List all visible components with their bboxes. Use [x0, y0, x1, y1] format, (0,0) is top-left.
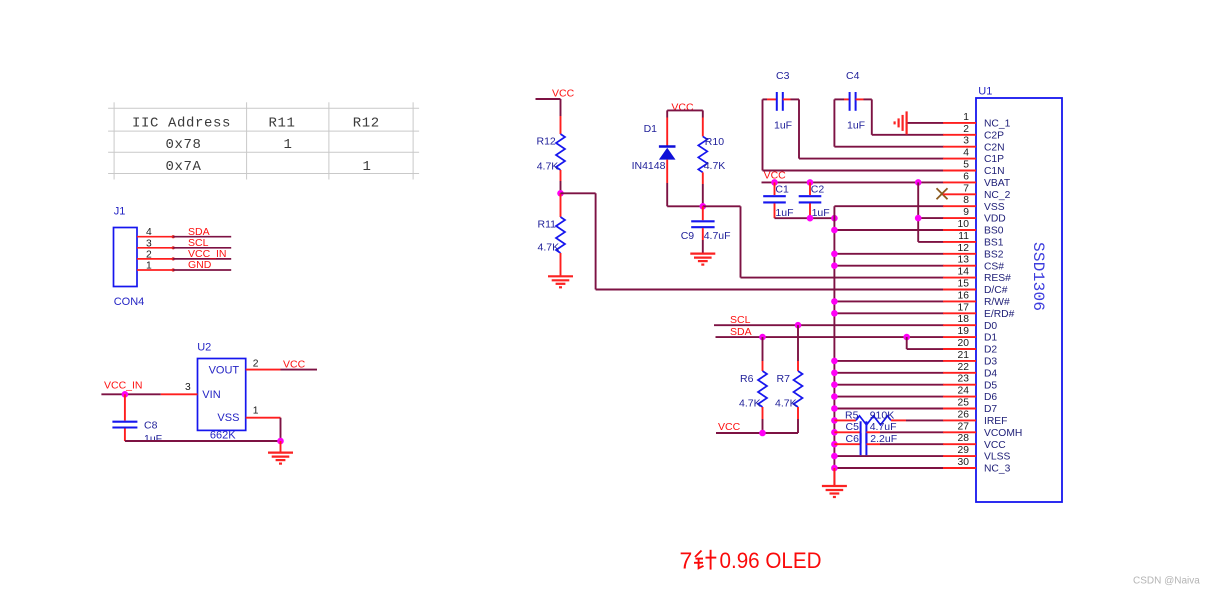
table row 0x78	[165, 137, 292, 153]
U1 pin 1 (NC_1)	[943, 112, 1011, 130]
U1 pin 17 (E/RD#)	[943, 302, 1015, 320]
node VDD riser top	[915, 179, 922, 186]
svg-text:C2: C2	[811, 183, 825, 195]
svg-text:C8: C8	[144, 419, 158, 431]
resistor R10	[698, 136, 707, 172]
svg-text:VCOMH: VCOMH	[984, 428, 1022, 439]
svg-text:25: 25	[958, 398, 970, 409]
capacitor C5 (4.7uF) on VCOMH pin27	[834, 421, 943, 443]
svg-text:14: 14	[958, 267, 970, 278]
ground (R11)	[548, 275, 573, 277]
svg-text:J1: J1	[114, 205, 126, 217]
svg-text:SSD1306: SSD1306	[1029, 242, 1047, 311]
regulator U2 body	[198, 359, 246, 431]
U1 pin 22 (D4)	[943, 362, 997, 380]
svg-text:VSS: VSS	[984, 202, 1005, 213]
svg-text:D6: D6	[984, 392, 997, 403]
svg-text:1: 1	[253, 405, 259, 416]
svg-text:0x7A: 0x7A	[165, 159, 201, 175]
table row 0x7A	[165, 159, 371, 175]
svg-text:2: 2	[963, 124, 969, 135]
U1 pin 5 (C1N)	[943, 160, 1005, 178]
svg-text:4: 4	[146, 227, 152, 238]
svg-text:R11: R11	[538, 219, 557, 231]
wire D1 anode to C9 node	[667, 205, 703, 207]
svg-text:C1N: C1N	[984, 166, 1005, 177]
wire divider node to D/C# pin15: right, down, right	[561, 193, 944, 289]
ground (C9)	[690, 253, 715, 255]
wire SDA to R6	[762, 337, 764, 371]
wire R7 bottom to VCC rail	[763, 407, 799, 433]
svg-text:VCC: VCC	[718, 421, 741, 433]
U1 pin 8 (VSS)	[943, 195, 1005, 213]
U1 pin 14 (RES#)	[943, 267, 1011, 285]
J1 pin 2 (VCC_IN)	[137, 248, 231, 260]
svg-text:910K: 910K	[870, 410, 895, 422]
node SDA branch to D2	[903, 334, 910, 341]
node C2 bottom	[807, 215, 814, 222]
wire node to RES# pin14: right, down, right	[703, 206, 944, 277]
U1 pin 23 (D5)	[943, 374, 997, 392]
U1 pin 29 (VLSS)	[943, 445, 1010, 463]
svg-text:U2: U2	[197, 342, 211, 354]
svg-text:9: 9	[963, 207, 969, 218]
wire R10 bottom	[702, 172, 704, 206]
U1 pin 11 (BS1)	[943, 231, 1004, 249]
node D1/R10/C9	[700, 203, 707, 210]
capacitor C9	[691, 206, 714, 253]
wire SCL to R7	[797, 325, 799, 371]
U1 part name SSD1306 (vertical)	[1029, 242, 1047, 311]
resistor R7	[794, 371, 803, 407]
wire VCC to D1 cathode	[666, 110, 668, 145]
wire C1/C2 bottoms to bus	[775, 217, 835, 219]
wire C3 right to C1P pin4	[791, 99, 944, 158]
svg-text:NC_3: NC_3	[984, 464, 1011, 475]
svg-text:1: 1	[146, 261, 152, 272]
svg-text:22: 22	[958, 362, 970, 373]
svg-text:R10: R10	[705, 136, 724, 148]
U2 pin 1 VSS wire	[246, 405, 281, 441]
svg-text:E/RD#: E/RD#	[984, 309, 1015, 320]
wire R12 bottom	[560, 170, 562, 193]
svg-text:16: 16	[958, 290, 970, 301]
node VCC_IN / C8 junction	[122, 391, 129, 398]
IC U1 SSD1306 body	[976, 98, 1062, 502]
node bus / pin 21	[831, 358, 838, 365]
node C1 top	[771, 179, 778, 186]
svg-text:GND: GND	[188, 259, 212, 271]
table header row: IIC Address / R11 / R12	[132, 115, 380, 131]
resistor R11	[556, 217, 565, 253]
wire bus to pin 25	[834, 408, 943, 410]
svg-text:D1: D1	[644, 123, 658, 135]
svg-text:BS1: BS1	[984, 238, 1004, 249]
U1 pin 30 (NC_3)	[943, 457, 1011, 475]
wire VCC rail to VBAT pin6	[762, 181, 944, 183]
wire C3 left to C1N pin5	[763, 99, 944, 170]
svg-text:4.7K: 4.7K	[775, 398, 797, 410]
svg-text:0.96 OLED: 0.96 OLED	[720, 548, 822, 573]
svg-text:VBAT: VBAT	[984, 178, 1011, 189]
capacitor C4	[844, 92, 864, 111]
svg-text:R5: R5	[845, 410, 859, 422]
svg-text:1uF: 1uF	[847, 120, 865, 132]
node bus / pin 22	[831, 370, 838, 377]
U1 pin 13 (CS#)	[943, 255, 1004, 273]
wire bus to pin 29	[834, 455, 943, 457]
svg-text:26: 26	[958, 409, 970, 420]
svg-text:NC_1: NC_1	[984, 119, 1011, 130]
svg-text:C5: C5	[846, 421, 860, 433]
svg-text:23: 23	[958, 374, 970, 385]
U1 pin 21 (D3)	[943, 350, 997, 368]
svg-text:4.7uF: 4.7uF	[870, 421, 897, 433]
svg-text:7: 7	[963, 183, 969, 194]
U1 pin 15 (D/C#)	[943, 279, 1008, 297]
wire VSS pin8 to bus top	[834, 205, 943, 207]
wire VCC to R12	[560, 99, 562, 134]
svg-text:C4: C4	[846, 70, 860, 82]
svg-text:VCC_IN: VCC_IN	[104, 380, 143, 392]
diode D1 (IN4148)	[659, 147, 676, 160]
svg-text:R11: R11	[268, 115, 295, 131]
U1 pin 6 (VBAT)	[943, 171, 1011, 189]
U1 pin 3 (C2N)	[943, 136, 1005, 154]
svg-text:1uF: 1uF	[774, 120, 792, 132]
svg-text:6: 6	[963, 171, 969, 182]
U1 pin 28 (VCC)	[943, 433, 1006, 451]
riser wire VCC to VDD pin9 and BS1 pin11	[918, 182, 943, 242]
ground (U2)	[268, 441, 293, 464]
U1 pin 10 (BS0)	[943, 219, 1004, 237]
svg-text:IIC Address: IIC Address	[132, 115, 231, 131]
wire C8 to ground rail	[125, 440, 281, 442]
resistor R12	[556, 134, 565, 170]
svg-text:VLSS: VLSS	[984, 452, 1010, 463]
node SCL / R7	[795, 322, 802, 329]
svg-text:D1: D1	[984, 333, 997, 344]
svg-text:30: 30	[958, 457, 970, 468]
node bus / pin 13	[831, 262, 838, 269]
U1 pin 20 (D2)	[943, 338, 997, 356]
wire R11 to ground	[560, 253, 562, 276]
svg-text:R12: R12	[353, 115, 380, 131]
svg-text:4.7uF: 4.7uF	[704, 230, 731, 242]
U1 pin 16 (R/W#)	[943, 290, 1010, 308]
svg-text:7: 7	[680, 548, 693, 574]
U2 pin 2 VOUT wire to VCC	[246, 358, 317, 369]
wire D1 anode down	[666, 160, 668, 207]
wire VCC to R10	[702, 110, 704, 136]
earth symbol on NC_1 pin1	[895, 111, 944, 134]
node C2 top	[807, 179, 814, 186]
svg-text:R7: R7	[777, 373, 791, 385]
node R6 bottom / VCC	[759, 430, 766, 437]
svg-text:1uF: 1uF	[144, 433, 162, 445]
svg-text:3: 3	[146, 238, 152, 249]
wire bus to pin 23	[834, 384, 943, 386]
svg-text:4.7K: 4.7K	[538, 242, 560, 254]
node bus / pin 10	[831, 227, 838, 234]
wire bus to pin 21	[834, 360, 943, 362]
node bus / pin 30	[831, 465, 838, 472]
node cap rail / bus	[831, 215, 838, 222]
svg-text:BS0: BS0	[984, 226, 1004, 237]
svg-text:IREF: IREF	[984, 416, 1007, 427]
svg-text:3: 3	[185, 382, 191, 393]
svg-text:CS#: CS#	[984, 261, 1004, 272]
svg-text:C3: C3	[776, 70, 790, 82]
svg-text:D5: D5	[984, 380, 997, 391]
svg-text:D3: D3	[984, 357, 997, 368]
wire C4 left to C2N pin3	[834, 99, 943, 146]
svg-text:12: 12	[958, 243, 970, 254]
node bus / pin 28	[831, 441, 838, 448]
svg-text:D7: D7	[984, 404, 997, 415]
svg-text:2: 2	[146, 249, 152, 260]
svg-text:2: 2	[253, 358, 259, 369]
svg-text:13: 13	[958, 255, 970, 266]
svg-text:VDD: VDD	[984, 214, 1006, 225]
svg-text:NC_2: NC_2	[984, 190, 1011, 201]
svg-text:10: 10	[958, 219, 970, 230]
svg-text:17: 17	[958, 302, 970, 313]
J1 pin 3 (SCL)	[137, 237, 231, 249]
node bus / pin 25	[831, 405, 838, 412]
svg-text:R6: R6	[740, 373, 754, 385]
wire SCL to D0 pin18	[714, 324, 944, 326]
U1 pin 26 (IREF)	[943, 409, 1007, 427]
capacitor C2	[799, 182, 822, 218]
svg-text:C1: C1	[775, 183, 789, 195]
svg-text:BS2: BS2	[984, 249, 1004, 260]
svg-text:U1: U1	[978, 85, 992, 97]
svg-text:VCC: VCC	[984, 440, 1006, 451]
svg-text:D2: D2	[984, 345, 997, 356]
U1 pin 25 (D7)	[943, 398, 997, 416]
node bus / pin 17	[831, 310, 838, 317]
wire bus to pin 12	[834, 253, 943, 255]
node VDD riser / pin9	[915, 215, 922, 222]
power port VCC (R12 top)	[536, 88, 575, 100]
wire C4 right to C2P pin2	[864, 99, 944, 134]
node bus / pin 16	[831, 298, 838, 305]
wire R6 bottom to VCC rail	[762, 407, 764, 433]
svg-text:1: 1	[362, 159, 371, 175]
svg-text:662K: 662K	[210, 430, 236, 442]
svg-text:C9: C9	[681, 230, 695, 242]
U2 pin 3 VIN wire	[101, 382, 197, 394]
svg-text:D4: D4	[984, 368, 997, 379]
svg-text:C2N: C2N	[984, 142, 1005, 153]
svg-text:18: 18	[958, 314, 970, 325]
svg-text:C6: C6	[846, 433, 860, 445]
svg-text:VOUT: VOUT	[209, 364, 240, 376]
svg-text:VSS: VSS	[217, 412, 239, 424]
svg-text:27: 27	[958, 421, 970, 432]
wire bus to pin 17	[834, 312, 943, 314]
svg-text:5: 5	[963, 160, 969, 171]
svg-text:1: 1	[283, 137, 292, 153]
svg-text:4.7K: 4.7K	[537, 161, 559, 173]
wire SDA branch to D2 pin20	[907, 337, 944, 349]
IIC address table grid	[108, 102, 419, 179]
svg-text:2.2uF: 2.2uF	[870, 433, 897, 445]
U1 pin 24 (D6)	[943, 386, 997, 404]
svg-text:RES#: RES#	[984, 273, 1011, 284]
svg-text:24: 24	[958, 386, 970, 397]
wire R11 top	[560, 193, 562, 217]
wire bus to pin 10	[834, 229, 943, 231]
wire bus to pin 13	[834, 265, 943, 267]
U1 pin 4 (C1P)	[943, 148, 1004, 166]
capacitor C3	[763, 92, 791, 111]
svg-text:VCC: VCC	[283, 358, 306, 370]
resistor R6	[758, 371, 767, 407]
svg-text:C2P: C2P	[984, 130, 1004, 141]
svg-text:CSDN @Naiva: CSDN @Naiva	[1133, 576, 1200, 587]
capacitor C6 (2.2uF) on VCC pin28	[834, 433, 943, 455]
svg-text:4.7K: 4.7K	[704, 160, 726, 172]
node bus / pin 12	[831, 251, 838, 258]
GND bus vertical	[833, 206, 835, 486]
svg-text:21: 21	[958, 350, 970, 361]
svg-text:SDA: SDA	[730, 326, 752, 338]
node bus / pin 23	[831, 381, 838, 388]
svg-text:VCC: VCC	[552, 88, 575, 100]
U1 pin 18 (D0)	[943, 314, 997, 332]
svg-text:VCC: VCC	[671, 102, 694, 114]
svg-text:1: 1	[963, 112, 969, 123]
wire SDA to D1 pin19	[716, 336, 944, 338]
U1 pin 19 (D1)	[943, 326, 997, 344]
node bus / pin 26	[831, 417, 838, 424]
svg-text:15: 15	[958, 279, 970, 290]
connector J1 (CON4) body	[114, 228, 138, 287]
svg-text:8: 8	[963, 195, 969, 206]
wire bus to pin 22	[834, 372, 943, 374]
no-connect X on NC_2 pin7	[937, 188, 948, 199]
svg-text:3: 3	[963, 136, 969, 147]
J1 pin 4 (SDA)	[137, 226, 231, 238]
node SDA / R6	[759, 334, 766, 341]
node R12/R11 junction	[557, 190, 564, 197]
svg-text:19: 19	[958, 326, 970, 337]
wire bus to pin 24	[834, 396, 943, 398]
node bus / pin 29	[831, 453, 838, 460]
U1 pin 12 (BS2)	[943, 243, 1004, 261]
wire bus to pin 16	[834, 300, 943, 302]
wire bus to pin 30	[834, 467, 943, 469]
svg-text:CON4: CON4	[114, 296, 145, 308]
U1 pin 27 (VCOMH)	[943, 421, 1022, 439]
U1 pin 7 (NC_2)	[943, 183, 1011, 201]
svg-text:4: 4	[963, 148, 969, 159]
svg-text:4.7K: 4.7K	[739, 398, 761, 410]
svg-text:0x78: 0x78	[165, 137, 201, 153]
svg-text:D/C#: D/C#	[984, 285, 1008, 296]
svg-text:IN4148: IN4148	[632, 160, 666, 172]
svg-text:1uF: 1uF	[775, 207, 793, 219]
power port VCC (D1/R10)	[667, 102, 703, 114]
svg-text:1uF: 1uF	[812, 207, 830, 219]
svg-text:28: 28	[958, 433, 970, 444]
power port VCC (R6/R7)	[716, 421, 763, 433]
node bus / pin 27	[831, 429, 838, 436]
capacitor C8	[112, 394, 137, 441]
node bus / pin 24	[831, 393, 838, 400]
svg-text:R12: R12	[537, 136, 556, 148]
U1 pin 2 (C2P)	[943, 124, 1004, 142]
svg-text:R/W#: R/W#	[984, 297, 1010, 308]
title: 7针 0.96 OLED	[680, 548, 822, 574]
svg-text:29: 29	[958, 445, 970, 456]
svg-text:20: 20	[958, 338, 970, 349]
resistor R5 (910K) on IREF pin26	[834, 416, 943, 425]
svg-text:C1P: C1P	[984, 154, 1004, 165]
ground (bus)	[822, 468, 847, 497]
svg-text:D0: D0	[984, 321, 997, 332]
U1 pin 9 (VDD)	[943, 207, 1006, 225]
node U2 VSS / ground	[277, 438, 284, 445]
J1 pin 1 (GND)	[137, 259, 231, 271]
svg-text:VIN: VIN	[202, 389, 220, 401]
capacitor C1	[763, 182, 786, 218]
svg-text:11: 11	[958, 231, 969, 242]
